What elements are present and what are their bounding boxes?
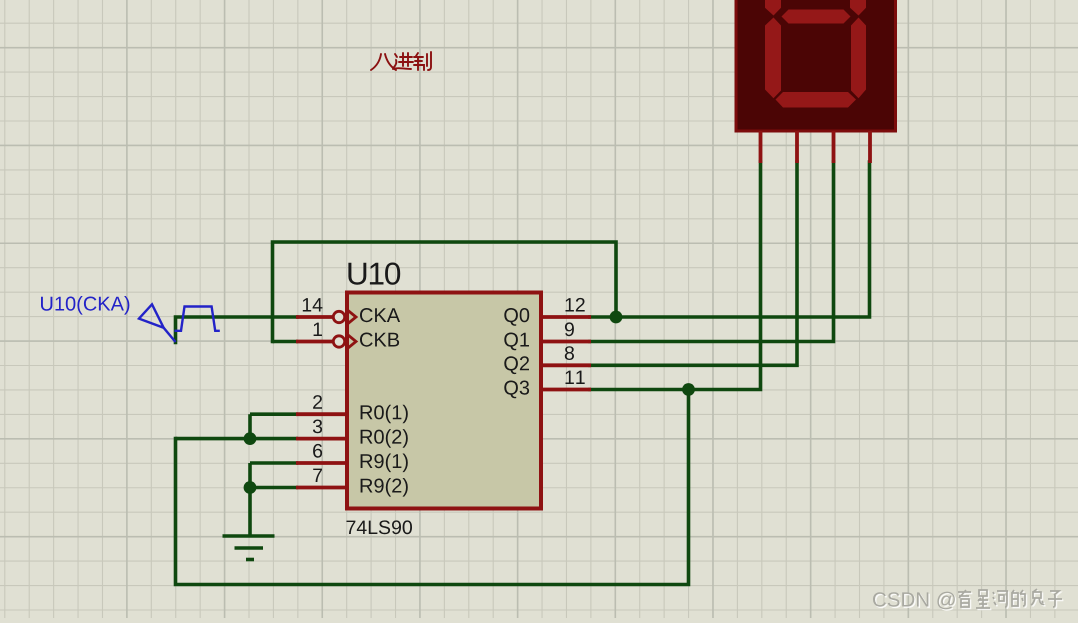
pin name R9(1) [361, 454, 408, 473]
pin 9 Q1 stub [542, 340, 591, 344]
7-segment display body [736, 0, 896, 131]
display pin 3 stub [832, 131, 836, 163]
display segment b (upper-right, cut by top edge) [850, 0, 866, 16]
wire ground stem [248, 488, 252, 537]
wire Q3 junction down to bottom rail and up to R0(2) [176, 390, 689, 585]
CKA clock edge symbol [348, 311, 356, 324]
title text 八进制 [371, 52, 431, 70]
junction R9(1)/R9(2)/ground [244, 481, 257, 494]
ground symbol [223, 536, 275, 560]
CKB clock edge symbol [348, 335, 356, 348]
wire Q3 to display pin 1 [590, 162, 761, 390]
clock waveform glyph [174, 307, 219, 331]
pin 1 CKB stub [296, 340, 333, 344]
wire R9(1) horizontal [250, 461, 298, 465]
reference label U10 [348, 263, 400, 285]
pin name CKA [360, 308, 400, 322]
pin 6 R9(1) stub [296, 461, 346, 465]
pin 14 CKA stub [296, 315, 333, 319]
pin number 11 [566, 371, 585, 384]
junction R0(1)/R0(2) [244, 432, 257, 445]
pin name R9(2) [361, 478, 408, 497]
wire Q1 to display pin 3 [590, 162, 834, 342]
pin number 3 [313, 420, 322, 434]
junction Q3/bottom rail [682, 383, 695, 396]
value label 74LS90 [347, 520, 413, 534]
pin number 9 [565, 322, 574, 336]
pin name Q2 [504, 356, 529, 374]
wire R0(1) horizontal [250, 412, 298, 416]
pin number 7 [313, 469, 322, 482]
pin name Q0 [504, 308, 529, 326]
display segment d (bottom) [776, 92, 857, 108]
CKB clock bubble [333, 336, 344, 347]
pin 3 R0(2) stub [296, 437, 346, 441]
wire Q0 to display pin 4 [590, 162, 870, 317]
wire R9(1) to R9(2) vertical [248, 463, 252, 488]
clock generator pennant symbol [139, 304, 176, 342]
IC U10 74LS90 body [347, 293, 541, 509]
wire from clock generator to CKA pin [176, 317, 298, 343]
label U10(CKA) [41, 296, 129, 315]
pin number 6 [313, 444, 322, 458]
junction Q0/CKB feedback [610, 311, 623, 324]
watermark CSDN @ white emboss [874, 593, 956, 611]
wire Q2 to display pin 2 [590, 162, 797, 365]
pin 12 Q0 stub [542, 315, 591, 319]
wire CKB stub to vertical [273, 340, 299, 344]
display pin 1 stub [759, 131, 763, 163]
pin name Q1 [504, 333, 529, 351]
display segment g (middle) [782, 10, 851, 24]
pin 8 Q2 stub [542, 363, 591, 367]
pin name R0(2) [361, 429, 408, 448]
pin number 8 [565, 346, 574, 360]
pin number 1 [314, 323, 322, 336]
pin number 12 [566, 298, 585, 312]
pin 11 Q3 stub [542, 388, 591, 392]
display pin 4 stub [868, 131, 872, 163]
display segment c (lower-right) [851, 18, 866, 99]
pin name R0(1) [361, 405, 408, 424]
CKA clock bubble [333, 311, 344, 322]
display segment f (upper-left, cut by top edge) [765, 0, 781, 16]
wire R0(2) horizontal [176, 437, 299, 441]
pin number 2 [313, 395, 322, 409]
wire R0(1) to R0(2) vertical [248, 414, 252, 438]
watermark CJK 看星河的兔子 [958, 589, 1062, 608]
display pin 2 stub [795, 131, 799, 163]
wire R9(2) horizontal [250, 486, 298, 490]
watermark CJK emboss [959, 590, 1063, 609]
pin 2 R0(1) stub [296, 412, 346, 416]
pin name Q3 [504, 381, 529, 399]
pin 7 R9(2) stub [296, 486, 346, 490]
pin name CKB [360, 333, 399, 347]
display segment e (lower-left) [765, 18, 781, 99]
pin number 14 [303, 298, 323, 311]
wire feedback loop Q0 to CKB [273, 242, 617, 342]
watermark CSDN @ [873, 592, 955, 610]
